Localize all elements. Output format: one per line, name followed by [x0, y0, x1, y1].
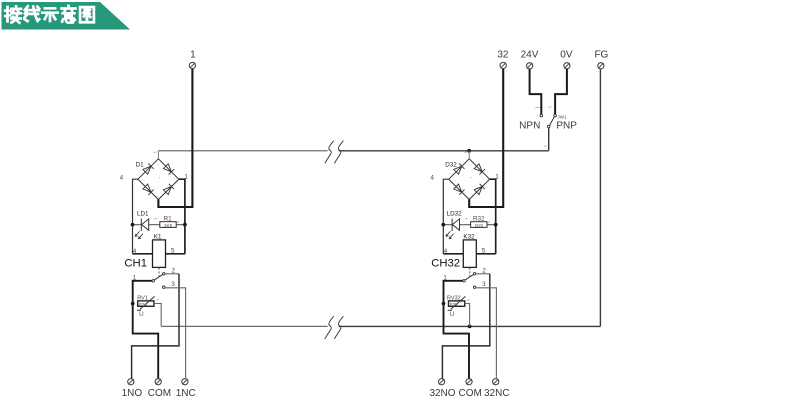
- svg-text:LD1: LD1: [137, 210, 149, 217]
- svg-text:32NO: 32NO: [429, 388, 455, 399]
- svg-text:D1: D1: [136, 162, 145, 169]
- svg-text:D32: D32: [445, 162, 457, 169]
- svg-text:U: U: [139, 311, 144, 318]
- svg-text:FG: FG: [594, 50, 608, 61]
- svg-text:1NO: 1NO: [122, 388, 143, 399]
- svg-text:CH32: CH32: [431, 257, 460, 269]
- svg-text:1NC: 1NC: [176, 388, 196, 399]
- svg-text:JW1: JW1: [557, 114, 566, 119]
- svg-text:CH1: CH1: [124, 257, 147, 269]
- svg-text:R1: R1: [164, 215, 173, 222]
- svg-text:RV32: RV32: [447, 296, 461, 302]
- svg-text:LD32: LD32: [447, 210, 463, 217]
- svg-text:32: 32: [497, 50, 509, 61]
- svg-text:COM: COM: [459, 388, 482, 399]
- svg-text:24V: 24V: [521, 50, 539, 61]
- svg-text:NPN: NPN: [519, 121, 540, 132]
- svg-text:0V: 0V: [560, 50, 573, 61]
- svg-text:1: 1: [190, 50, 196, 61]
- svg-text:R32: R32: [473, 215, 485, 222]
- svg-text:K32: K32: [463, 234, 475, 241]
- svg-text:COM: COM: [148, 388, 171, 399]
- svg-text:U: U: [450, 311, 455, 318]
- svg-text:32NC: 32NC: [484, 388, 510, 399]
- svg-text:RV1: RV1: [137, 296, 148, 302]
- svg-text:PNP: PNP: [556, 121, 577, 132]
- svg-text:K1: K1: [154, 234, 162, 241]
